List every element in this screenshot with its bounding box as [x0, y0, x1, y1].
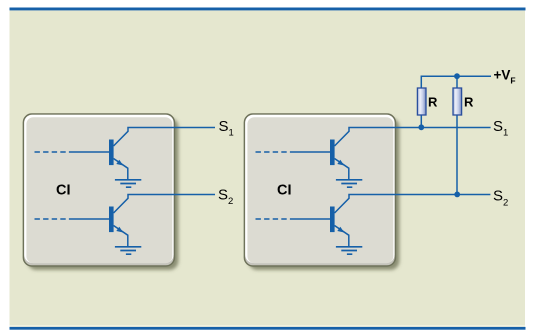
IC box 1 shadow [27, 118, 178, 270]
box1 Q2 base dashed lead [35, 218, 70, 220]
box1 Q2 emitter arrow [116, 227, 123, 233]
node S2 junction dot [454, 192, 460, 198]
box1 Q2 collector wire to S2 [114, 195, 216, 214]
resistor R2 leads [456, 76, 458, 194]
IC box 2 shadow [248, 118, 399, 270]
box1 Q1 collector wire to S1 [114, 128, 216, 147]
box1 Q1 bar [109, 140, 114, 166]
resistor R1 body [417, 88, 426, 115]
+VF supply wire [421, 76, 491, 88]
box2 Q3 base wire [291, 151, 331, 153]
node VF junction dot [454, 73, 460, 79]
box1 Q2 base wire [70, 218, 110, 220]
box1 Q2 emitter wire [114, 226, 128, 247]
box1 Q2 ground [115, 247, 141, 254]
svg-text:R: R [428, 95, 438, 110]
box2 Q4 base wire [291, 218, 331, 220]
box1 Q1 ground [115, 180, 141, 187]
box2 Q4 ground [336, 247, 362, 254]
box2 Q4 base dashed lead [256, 218, 291, 220]
box2 Q3 base dashed lead [256, 151, 291, 153]
resistor R2 body [453, 88, 462, 115]
light strip above bottom rule [10, 325, 526, 327]
box1 Q1 base dashed lead [35, 151, 70, 153]
box2 Q3 ground [336, 180, 362, 187]
resistor R1 bottom lead [420, 115, 422, 127]
IC box 1 body [23, 114, 174, 266]
box2 Q3 emitter arrow [337, 160, 344, 166]
box2 Q4 collector wire to S2 node [335, 195, 491, 214]
IC box 2 body [244, 114, 395, 266]
box2 Q3 bar [330, 140, 335, 166]
box2 Q4 emitter arrow [337, 227, 344, 233]
box1 Q1 emitter wire [114, 159, 128, 180]
box1 Q1 base wire [70, 151, 110, 153]
svg-text:CI: CI [56, 183, 71, 199]
box2 Q4 emitter wire [335, 226, 349, 247]
box2 Q4 bar [330, 207, 335, 233]
bottom blue rule [10, 327, 526, 330]
box1 Q2 bar [109, 207, 114, 233]
top blue bar [10, 8, 526, 11]
node S1 junction dot [418, 124, 424, 130]
box2 Q3 emitter wire [335, 159, 349, 180]
box1 Q1 emitter arrow [116, 160, 123, 166]
box2 Q3 collector wire to S1 node [335, 128, 491, 147]
svg-text:CI: CI [277, 183, 292, 199]
svg-text:R: R [464, 95, 474, 110]
